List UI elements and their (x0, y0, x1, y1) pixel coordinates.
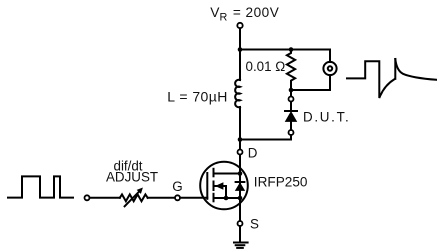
wire top rail (240, 49, 330, 51)
channel segment bottom (213, 194, 215, 202)
wire rail to inductor (239, 50, 241, 81)
channel segment top (213, 169, 215, 177)
ground (234, 242, 248, 244)
channel segment middle (213, 182, 215, 191)
inductor L1 (235, 80, 240, 107)
diode D.U.T. (285, 110, 297, 112)
transistor Q1 IRFP250 body circle (200, 162, 248, 210)
potentiometer R2 dif/dt adjust (120, 194, 148, 201)
resistor R1 0.01 ohm (287, 50, 295, 91)
input pulse waveform (8, 176, 73, 197)
svg-text:D.U.T.: D.U.T. (303, 109, 350, 124)
node DUT anode terminal (290, 90, 292, 96)
wire pot to gate terminal (148, 197, 175, 199)
node S terminal (238, 221, 243, 226)
svg-text:0.01 Ω: 0.01 Ω (246, 59, 286, 74)
junction resistor/rail (289, 47, 294, 52)
wire DUT bottom to drain node (240, 135, 291, 140)
drain connection (214, 173, 241, 175)
wire probe top (329, 50, 331, 63)
svg-text:G: G (172, 179, 182, 194)
probe connector outer (323, 62, 336, 75)
wire node to diode (290, 102, 292, 111)
svg-text:S: S (250, 216, 259, 231)
wire gate terminal to gate plate (180, 197, 207, 199)
wire terminal to rail junction (239, 28, 241, 49)
probe connector inner (328, 66, 332, 70)
junction drain node (238, 137, 243, 142)
output waveform (347, 61, 395, 98)
wire S to ground (239, 226, 241, 242)
body diode (236, 181, 245, 183)
pot arrow (125, 191, 140, 206)
svg-text:D: D (248, 145, 258, 160)
svg-text:L = 70µH: L = 70µH (167, 88, 228, 104)
wire input to pot (90, 197, 120, 199)
junction main/rail (238, 47, 243, 52)
junction resistor bottom (289, 88, 294, 93)
body connection with arrow (215, 186, 226, 198)
node D terminal (238, 150, 243, 155)
svg-text:VR= 200V: VR= 200V (210, 5, 279, 23)
node G terminal (175, 195, 180, 200)
wire probe bottom (291, 75, 330, 90)
gate plate (206, 173, 208, 199)
wire node D into mosfet (239, 155, 241, 222)
svg-text:IRFP250: IRFP250 (254, 174, 308, 189)
wire to node D (239, 140, 241, 150)
node DUT cathode terminal (289, 130, 294, 135)
input terminal (85, 195, 90, 200)
source connection (214, 197, 241, 199)
svg-text:ADJUST: ADJUST (106, 169, 158, 184)
node VR supply terminal (237, 23, 242, 28)
wire inductor to node D junction (239, 107, 241, 140)
